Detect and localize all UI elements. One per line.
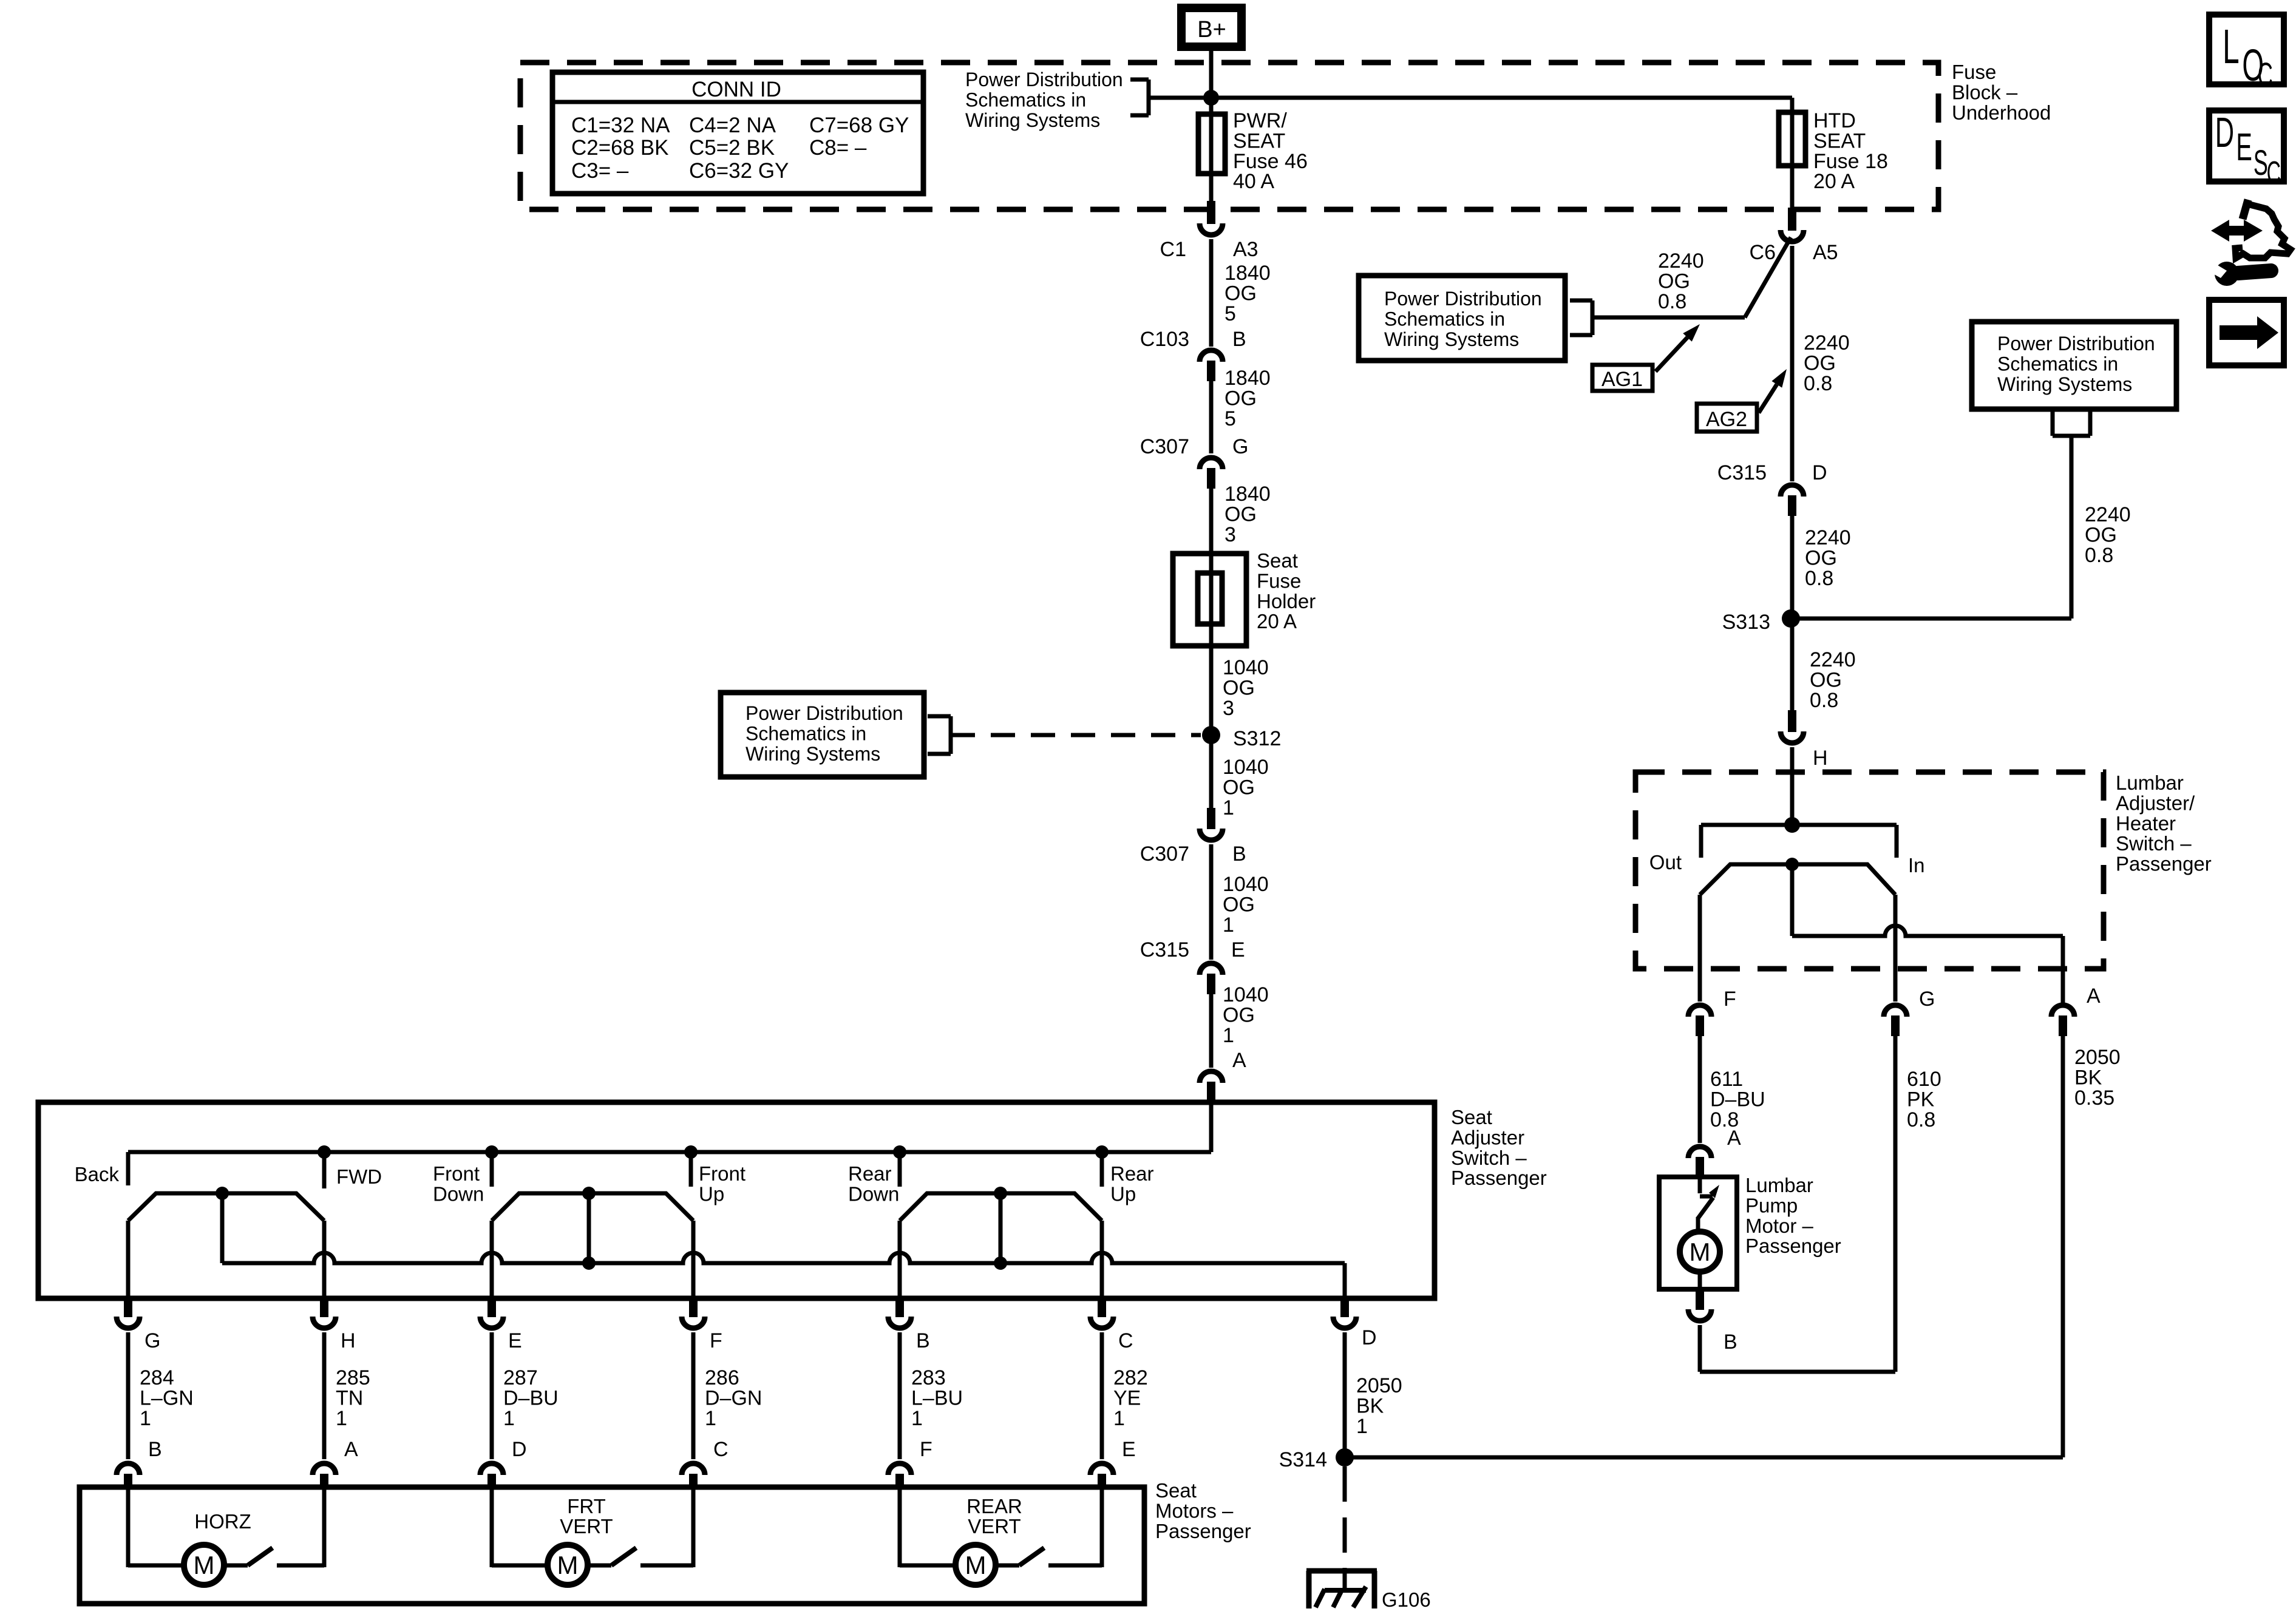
svg-text:Fuse: Fuse <box>1257 569 1301 592</box>
svg-text:PK: PK <box>1907 1088 1935 1111</box>
connector C1 pin A3 <box>1207 201 1215 224</box>
svg-text:C: C <box>2267 155 2281 191</box>
svg-text:282: 282 <box>1113 1366 1148 1389</box>
connector motor pin C <box>682 1463 705 1475</box>
svg-text:Holder: Holder <box>1257 590 1316 612</box>
connector C307 pin G <box>1200 458 1223 469</box>
wire circuit 285 TN 1 <box>322 1332 327 1459</box>
callout box AG1 <box>1592 365 1652 391</box>
connector motor pin D <box>480 1463 503 1475</box>
svg-text:1840: 1840 <box>1224 483 1271 506</box>
wire lumbar pin A drop <box>2061 936 2065 1003</box>
svg-text:TN: TN <box>336 1386 363 1409</box>
junction on bus at Front Down <box>485 1145 498 1159</box>
svg-text:Switch –: Switch – <box>2116 832 2192 855</box>
svg-text:D–BU: D–BU <box>503 1386 559 1409</box>
lumbar pump motor box <box>1659 1177 1737 1289</box>
svg-text:1: 1 <box>503 1407 515 1430</box>
svg-text:A: A <box>2087 985 2101 1008</box>
connector motor pin A <box>313 1463 336 1475</box>
svg-text:OG: OG <box>1224 282 1257 305</box>
svg-text:2240: 2240 <box>1658 249 1704 273</box>
svg-text:1: 1 <box>336 1407 347 1430</box>
wire 2240 OG 0.8 segment <box>1790 246 1795 481</box>
wire 1040 OG 1 segment 3 <box>1209 994 1214 1068</box>
svg-text:Lumbar: Lumbar <box>2116 771 2184 794</box>
svg-text:L–GN: L–GN <box>140 1386 194 1409</box>
arrow AG2 to wire <box>1759 384 1777 413</box>
svg-text:PWR/: PWR/ <box>1233 109 1287 132</box>
contact stub FWD <box>322 1152 327 1188</box>
svg-text:0.8: 0.8 <box>1810 689 1838 712</box>
svg-text:5: 5 <box>1224 302 1236 325</box>
svg-text:Power Distribution: Power Distribution <box>746 702 903 724</box>
switch rocker 1 (Back/FWD) <box>128 1193 324 1221</box>
svg-text:VERT: VERT <box>968 1515 1021 1537</box>
icon vehicle outline <box>2243 200 2248 219</box>
wire pump motor to pin B <box>1698 1272 1702 1289</box>
junction on bus at FWD <box>318 1145 331 1159</box>
svg-text:OG: OG <box>1223 1003 1255 1026</box>
svg-text:40 A: 40 A <box>1233 170 1274 193</box>
svg-text:C4=2 NA: C4=2 NA <box>689 114 776 137</box>
svg-text:C5=2 BK: C5=2 BK <box>689 136 775 160</box>
dashed wire to splice S312 <box>951 733 1201 737</box>
wire circuit 283 L–BU 1 <box>898 1332 902 1459</box>
svg-text:Up: Up <box>699 1182 724 1205</box>
wire circuit 2050 BK 1 <box>1343 1332 1347 1457</box>
svg-text:1040: 1040 <box>1223 873 1269 896</box>
svg-text:HTD: HTD <box>1813 109 1856 132</box>
svg-text:Power Distribution: Power Distribution <box>1384 288 1542 310</box>
connector C315 pin D <box>1781 485 1804 497</box>
svg-text:OG: OG <box>1224 503 1257 526</box>
svg-text:D–GN: D–GN <box>705 1386 762 1409</box>
svg-text:Fuse: Fuse <box>1952 61 1996 83</box>
svg-text:OG: OG <box>1224 387 1257 410</box>
svg-text:1: 1 <box>1113 1407 1125 1430</box>
svg-text:M: M <box>194 1551 215 1579</box>
svg-text:A5: A5 <box>1813 241 1838 264</box>
splice S312 <box>1202 726 1220 744</box>
seat fuse holder fuse element <box>1198 573 1222 624</box>
svg-text:L–BU: L–BU <box>911 1386 963 1409</box>
svg-text:Passenger: Passenger <box>2116 853 2212 875</box>
svg-text:Seat: Seat <box>1451 1106 1492 1128</box>
svg-text:1: 1 <box>1223 914 1234 937</box>
svg-text:D: D <box>2215 109 2234 156</box>
rocker 2 pole leg <box>587 1193 591 1263</box>
wire B+ down to fuse block <box>1209 51 1214 115</box>
splice S314 <box>1336 1448 1354 1466</box>
wire circuit 284 L–GN 1 <box>126 1332 131 1459</box>
wire from top right note to S313 <box>2070 436 2074 619</box>
wire 2240 OG 0.8 segment 2 <box>1790 516 1795 619</box>
junction lumbar rocker top <box>1785 858 1799 871</box>
svg-text:C1: C1 <box>1160 238 1186 261</box>
wire circuit 286 D–GN 1 <box>691 1332 696 1459</box>
connector lumbar pump pin B <box>1696 1289 1704 1310</box>
connector C307 pin B (second) <box>1207 808 1215 829</box>
svg-text:B+: B+ <box>1197 17 1226 42</box>
svg-text:Pump: Pump <box>1745 1194 1798 1216</box>
wire S314 to lumbar return <box>1345 1456 2063 1460</box>
callout box AG2 <box>1697 404 1757 432</box>
svg-text:Out: Out <box>1649 851 1682 873</box>
svg-text:REAR: REAR <box>966 1495 1022 1517</box>
svg-text:OG: OG <box>1810 668 1842 691</box>
wire through fuse 18 <box>1790 112 1795 166</box>
svg-text:C307: C307 <box>1140 842 1189 866</box>
svg-text:Power Distribution: Power Distribution <box>1997 333 2155 354</box>
svg-text:20 A: 20 A <box>1813 170 1855 193</box>
fuse block dashed outline (Fuse Block - Underhood) <box>520 63 1938 209</box>
svg-text:B: B <box>916 1329 930 1352</box>
svg-text:CONN ID: CONN ID <box>691 78 781 101</box>
svg-text:C8= –: C8= – <box>809 136 867 160</box>
junction rocker 2 bottom <box>582 1256 596 1270</box>
svg-text:Switch –: Switch – <box>1451 1147 1527 1169</box>
svg-text:Power Distribution: Power Distribution <box>965 69 1123 90</box>
svg-text:FWD: FWD <box>336 1165 382 1188</box>
svg-text:1: 1 <box>1223 1024 1234 1047</box>
lumbar feed bus <box>1701 823 1897 827</box>
svg-text:Motors –: Motors – <box>1155 1499 1234 1522</box>
svg-text:Rear: Rear <box>1110 1162 1154 1185</box>
svg-text:D: D <box>1362 1326 1377 1349</box>
connector C315-type pin G below switch <box>124 1298 132 1317</box>
svg-text:A: A <box>1727 1127 1741 1150</box>
note box Power Distribution (top right) <box>1972 322 2176 409</box>
icon box LOC <box>2209 15 2284 84</box>
svg-text:Down: Down <box>848 1182 899 1205</box>
motor M FRT VERT <box>548 1545 588 1585</box>
wire pump B return to switch G <box>1698 1325 1702 1372</box>
switch return bus with wire hops <box>222 1253 1345 1263</box>
svg-text:1: 1 <box>911 1407 923 1430</box>
switch leg to pin F <box>691 1221 696 1298</box>
svg-text:285: 285 <box>336 1366 370 1389</box>
svg-text:Up: Up <box>1110 1182 1136 1205</box>
svg-text:C6: C6 <box>1750 241 1776 264</box>
connector motor pin B <box>117 1463 140 1475</box>
svg-text:M: M <box>965 1551 987 1579</box>
wire 1040 OG 1 segment 2 <box>1209 844 1214 960</box>
svg-text:610: 610 <box>1907 1068 1941 1091</box>
svg-text:286: 286 <box>705 1366 739 1389</box>
svg-text:HORZ: HORZ <box>194 1510 251 1533</box>
contact stub Front Up <box>689 1152 693 1187</box>
svg-text:0.8: 0.8 <box>1804 372 1832 395</box>
svg-text:H: H <box>341 1329 356 1352</box>
svg-text:Seat: Seat <box>1155 1479 1197 1502</box>
connector lumbar pin A <box>2051 1005 2074 1017</box>
svg-text:Wiring Systems: Wiring Systems <box>1384 328 1519 350</box>
seat fuse holder outer box <box>1173 554 1246 646</box>
wire AG1 branch <box>1592 316 1745 320</box>
switch leg to pin H <box>322 1221 327 1298</box>
svg-text:0.35: 0.35 <box>2074 1086 2114 1110</box>
lumbar switch leg to pin F <box>1698 895 1702 1002</box>
svg-text:C315: C315 <box>1140 938 1189 961</box>
lumbar pole wire to pin A with hop <box>1792 926 2063 936</box>
svg-text:G: G <box>144 1329 160 1352</box>
svg-text:1040: 1040 <box>1223 756 1269 779</box>
svg-text:0.8: 0.8 <box>1658 290 1686 313</box>
svg-text:BK: BK <box>1356 1394 1384 1417</box>
svg-text:Fuse 46: Fuse 46 <box>1233 150 1308 173</box>
svg-text:Back: Back <box>75 1163 120 1185</box>
note box Power Distribution (AG1 branch) <box>1359 276 1565 361</box>
svg-text:2240: 2240 <box>1805 526 1851 549</box>
rocker 1 pole leg <box>220 1193 225 1263</box>
bracket from middle note <box>928 714 951 719</box>
switch blade FRT VERT <box>588 1564 611 1568</box>
svg-text:287: 287 <box>503 1366 538 1389</box>
wire 1840 OG 5 segment 2 <box>1209 381 1214 453</box>
svg-text:G: G <box>1919 988 1935 1011</box>
svg-text:1840: 1840 <box>1224 262 1271 285</box>
svg-text:0.8: 0.8 <box>1805 567 1833 590</box>
contact stub Front Down <box>490 1152 494 1187</box>
wire motor right leg FRT VERT <box>640 1564 693 1568</box>
return bus drop to pin D <box>1343 1263 1347 1298</box>
svg-text:F: F <box>920 1438 932 1461</box>
splice S313 <box>1782 609 1800 628</box>
svg-text:Passenger: Passenger <box>1745 1235 1841 1257</box>
svg-text:2050: 2050 <box>2074 1046 2121 1069</box>
svg-text:0.8: 0.8 <box>2085 544 2113 567</box>
svg-text:1: 1 <box>1356 1415 1368 1438</box>
svg-text:5: 5 <box>1224 407 1236 430</box>
wire pin A into switch <box>1209 1102 1214 1152</box>
svg-text:OG: OG <box>1658 269 1690 293</box>
svg-text:S: S <box>2254 143 2268 183</box>
svg-text:1040: 1040 <box>1223 983 1269 1006</box>
lumbar adjuster/heater switch dashed box <box>1635 772 2104 969</box>
connector C315-type pin F below switch <box>689 1298 698 1317</box>
svg-text:Schematics in: Schematics in <box>746 722 866 744</box>
svg-text:Schematics in: Schematics in <box>1997 353 2118 375</box>
lumbar rocker pole leg <box>1790 864 1795 936</box>
switch rocker 3 (Rear Down/Rear Up) <box>900 1193 1102 1221</box>
CONN ID table box <box>552 72 923 194</box>
wire circuit 287 D–BU 1 <box>490 1332 494 1459</box>
svg-text:284: 284 <box>140 1366 174 1389</box>
connector lumbar pin G <box>1884 1005 1907 1017</box>
svg-text:AG2: AG2 <box>1706 408 1747 431</box>
connector C315 pin E <box>1200 963 1223 975</box>
svg-text:Heater: Heater <box>2116 812 2176 835</box>
connector C315-type pin E below switch <box>487 1298 496 1317</box>
svg-text:D: D <box>512 1438 527 1461</box>
svg-text:Rear: Rear <box>848 1162 892 1185</box>
svg-text:1: 1 <box>705 1407 716 1430</box>
svg-text:Block –: Block – <box>1952 81 2018 103</box>
svg-text:C2=68 BK: C2=68 BK <box>571 136 669 160</box>
junction rocker 3 top <box>994 1187 1007 1200</box>
svg-text:Down: Down <box>433 1182 484 1205</box>
svg-text:M: M <box>557 1551 579 1579</box>
svg-text:F: F <box>710 1329 722 1352</box>
wire through seat fuse holder <box>1209 554 1214 646</box>
wire motor left leg FRT VERT <box>490 1487 494 1567</box>
switch feed bus <box>128 1150 1211 1154</box>
svg-text:1040: 1040 <box>1223 656 1269 679</box>
svg-text:Front: Front <box>433 1162 480 1185</box>
pump motor M <box>1680 1232 1720 1272</box>
svg-text:C: C <box>2258 56 2273 94</box>
switch leg to pin B <box>898 1221 902 1298</box>
junction node at B+ feed <box>1203 90 1219 106</box>
contact stub Out <box>1699 825 1703 858</box>
wire circuit 610 PK 0.8 <box>1894 1036 1898 1372</box>
wire horizontal feed to both fuses <box>1149 96 1792 100</box>
wire circuit 282 YE 1 <box>1100 1332 1104 1459</box>
switch leg to pin C <box>1100 1221 1104 1298</box>
svg-text:Passenger: Passenger <box>1155 1520 1251 1542</box>
junction on bus at Front Up <box>684 1145 698 1159</box>
svg-text:OG: OG <box>1805 546 1837 569</box>
svg-text:S313: S313 <box>1722 611 1770 634</box>
wire down to HTD SEAT fuse <box>1790 98 1795 115</box>
svg-text:Fuse 18: Fuse 18 <box>1813 150 1888 173</box>
rocker 3 pole leg <box>999 1193 1003 1263</box>
icon box DESC <box>2209 110 2284 181</box>
junction on bus at Rear Down <box>893 1145 906 1159</box>
svg-text:Lumbar: Lumbar <box>1745 1174 1813 1196</box>
svg-text:B: B <box>148 1438 162 1461</box>
svg-text:D: D <box>1812 461 1827 484</box>
wire motor left leg REAR VERT <box>898 1487 902 1567</box>
svg-text:611: 611 <box>1710 1068 1743 1091</box>
svg-text:C3= –: C3= – <box>571 159 629 183</box>
connector C315-type pin B below switch <box>895 1298 904 1317</box>
connector pin D below switch <box>1340 1298 1349 1317</box>
svg-text:A: A <box>1232 1049 1246 1072</box>
svg-text:A3: A3 <box>1233 238 1258 261</box>
svg-text:1840: 1840 <box>1224 367 1271 390</box>
contact stub In <box>1895 825 1899 858</box>
svg-text:OG: OG <box>1223 893 1255 916</box>
svg-text:BK: BK <box>2074 1066 2102 1089</box>
svg-text:Schematics in: Schematics in <box>1384 308 1505 330</box>
wire 1040 OG 1 segment 1 <box>1209 735 1214 808</box>
wire motor left leg HORZ <box>126 1487 131 1567</box>
svg-text:Wiring Systems: Wiring Systems <box>1997 373 2132 395</box>
svg-text:H: H <box>1813 747 1828 770</box>
switch leg to pin G <box>126 1221 131 1298</box>
svg-text:VERT: VERT <box>560 1515 613 1537</box>
connector seat switch pin A <box>1200 1071 1223 1083</box>
svg-text:Wiring Systems: Wiring Systems <box>965 109 1100 131</box>
connector motor pin F <box>888 1463 911 1475</box>
svg-text:F: F <box>1724 988 1736 1011</box>
svg-text:B: B <box>1232 842 1246 866</box>
svg-text:C6=32 GY: C6=32 GY <box>689 159 789 183</box>
wire motor right leg REAR VERT <box>1048 1564 1102 1568</box>
motor M HORZ <box>184 1545 224 1585</box>
svg-text:FRT: FRT <box>567 1495 606 1517</box>
svg-text:0.8: 0.8 <box>1907 1108 1935 1131</box>
svg-text:Underhood: Underhood <box>1952 101 2051 124</box>
connector C6 pin A5 <box>1788 208 1796 231</box>
connector lumbar pin F <box>1688 1005 1711 1017</box>
wire through fuse 46 <box>1209 114 1214 174</box>
icon wrench <box>2215 262 2239 286</box>
svg-text:B: B <box>1724 1331 1737 1354</box>
svg-text:1: 1 <box>1223 796 1234 819</box>
switch rocker 2 (Front Down/Front Up) <box>492 1193 693 1221</box>
note box Power Distribution (middle left) <box>721 693 924 777</box>
svg-text:OG: OG <box>1223 776 1255 799</box>
wire circuit 611 D-BU 0.8 <box>1698 1036 1702 1143</box>
contact stub Back <box>126 1152 131 1185</box>
svg-text:C1=32 NA: C1=32 NA <box>571 114 670 137</box>
seat motors box <box>80 1487 1144 1604</box>
svg-text:2050: 2050 <box>1356 1374 1402 1397</box>
wire 1840 OG 3 segment <box>1209 489 1214 554</box>
svg-text:Adjuster: Adjuster <box>1451 1126 1524 1148</box>
svg-text:2240: 2240 <box>2085 503 2131 526</box>
wire 1840 OG 5 segment 1 <box>1209 239 1214 347</box>
pump internal switch <box>1698 1177 1702 1193</box>
svg-text:OG: OG <box>1223 676 1255 699</box>
svg-text:G: G <box>1232 435 1248 458</box>
svg-text:S314: S314 <box>1279 1448 1327 1471</box>
svg-text:3: 3 <box>1223 697 1234 720</box>
svg-text:L: L <box>2223 20 2240 74</box>
connector C315-type pin H below switch <box>320 1298 328 1317</box>
svg-text:M: M <box>1690 1238 1711 1266</box>
icon vehicle adjust (double arrow) <box>2211 220 2263 242</box>
junction rocker 3 bottom <box>994 1256 1007 1270</box>
svg-text:E: E <box>1231 938 1245 961</box>
svg-text:Front: Front <box>699 1162 746 1185</box>
wire 2240 OG 0.8 segment 3 <box>1790 619 1795 710</box>
connector C315-type pin C below switch <box>1098 1298 1106 1317</box>
connector motor pin E <box>1090 1463 1113 1475</box>
svg-text:C7=68 GY: C7=68 GY <box>809 114 909 137</box>
lumbar switch rocker <box>1700 864 1895 895</box>
svg-text:E: E <box>1122 1438 1136 1461</box>
wire 1040 OG 3 segment <box>1209 646 1214 735</box>
svg-text:C307: C307 <box>1140 435 1189 458</box>
svg-text:Seat: Seat <box>1257 549 1298 572</box>
bracket from top note to B+ wire <box>1130 78 1149 82</box>
svg-text:Schematics in: Schematics in <box>965 89 1086 110</box>
svg-text:2240: 2240 <box>1810 648 1856 671</box>
svg-text:3: 3 <box>1224 523 1236 546</box>
CONN ID header separator <box>552 100 923 104</box>
svg-text:SEAT: SEAT <box>1813 129 1866 152</box>
connector lumbar pump pin A <box>1688 1147 1711 1158</box>
contact stub Rear Up <box>1100 1152 1104 1187</box>
svg-text:Passenger: Passenger <box>1451 1167 1547 1189</box>
connector C103 pin B <box>1200 350 1223 362</box>
junction lumbar bus <box>1784 817 1800 833</box>
svg-text:YE: YE <box>1113 1386 1141 1409</box>
seat adjuster switch box <box>38 1102 1435 1298</box>
svg-text:SEAT: SEAT <box>1233 129 1285 152</box>
wire motor right leg HORZ <box>277 1564 324 1568</box>
arrow AG1 to wire <box>1656 337 1688 371</box>
bracket AG1 note <box>1570 299 1592 303</box>
svg-text:OG: OG <box>1804 351 1836 375</box>
svg-text:D–BU: D–BU <box>1710 1088 1765 1111</box>
bracket top right note <box>2051 409 2055 436</box>
junction on bus at Rear Up <box>1095 1145 1109 1159</box>
